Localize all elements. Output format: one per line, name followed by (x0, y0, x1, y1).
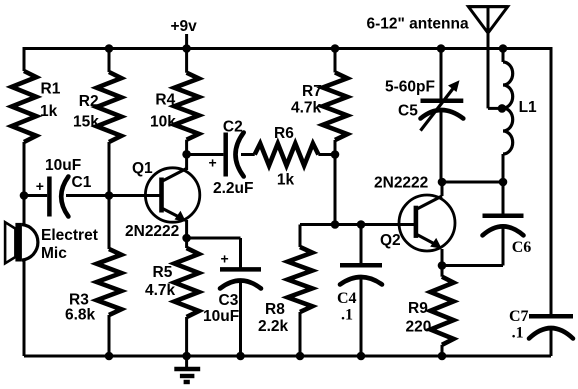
node R2 top rail (105, 44, 114, 53)
resistor R5 (174, 248, 199, 317)
wire rail to L1 (502, 49, 505, 63)
wire C1 to base node (66, 194, 109, 197)
wire R2 to base node (108, 142, 111, 196)
svg-text:L1: L1 (519, 99, 537, 116)
wire rail to R4 (185, 49, 188, 73)
svg-text:R4: R4 (155, 92, 175, 109)
wire Q1 emitter down (185, 220, 188, 238)
resistor R9 (430, 277, 453, 345)
wire L1 to tank bottom (502, 154, 505, 182)
svg-text:10uF: 10uF (45, 157, 81, 174)
node C4 top (357, 220, 366, 229)
svg-text:C1: C1 (72, 174, 92, 191)
svg-text:2N2222: 2N2222 (125, 223, 179, 240)
svg-text:6.8k: 6.8k (65, 307, 96, 324)
capacitor C5 5-60pF (variable) (421, 80, 464, 130)
wire bottom ground rail (24, 355, 551, 358)
svg-text:+: + (221, 251, 229, 267)
node Q2 collector (438, 178, 447, 187)
capacitor C4 (340, 263, 382, 268)
node L1 antenna tap (498, 104, 507, 113)
wire left rail top (23, 47, 26, 71)
microphone Electret Mic (5, 222, 38, 263)
svg-text:R5: R5 (153, 264, 173, 281)
svg-text:+: + (36, 178, 44, 194)
capacitor C6 (483, 213, 524, 218)
node C4 ground (357, 352, 366, 361)
wire C6 to emitter node (502, 228, 505, 266)
node Q1 emitter (182, 234, 191, 243)
svg-text:10uF: 10uF (203, 308, 239, 325)
svg-text:+: + (209, 155, 217, 171)
resistor R8 (288, 247, 313, 312)
wire collector node to Q1 (185, 154, 188, 170)
svg-text:+9v: +9v (171, 18, 198, 35)
svg-text:R8: R8 (265, 301, 285, 318)
transistor Q1 2N2222 (145, 168, 199, 222)
node C3 ground (236, 352, 245, 361)
wire +9v tick (185, 34, 188, 49)
svg-text:1k: 1k (277, 172, 295, 189)
node C5 top rail (437, 44, 446, 53)
wire rail to C5 (440, 49, 443, 101)
wire R8 to ground rail (299, 312, 302, 356)
resistor R2 (97, 72, 122, 142)
svg-text:6-12" antenna: 6-12" antenna (367, 16, 469, 33)
node Q2 emitter (438, 261, 447, 270)
svg-text:Q1: Q1 (132, 160, 153, 177)
svg-text:15k: 15k (73, 114, 99, 131)
node mic/C1/R1 junction (20, 191, 29, 200)
wire mic node to C1 (24, 194, 47, 197)
resistor R7 (323, 72, 348, 140)
wire Q2 collector up (441, 182, 444, 196)
wire Q2 emitter down (441, 249, 444, 266)
wire C5 to collector node (440, 112, 443, 182)
node R9 ground (438, 352, 447, 361)
node R8 ground (296, 352, 305, 361)
wire rail to R7 (334, 49, 337, 73)
node R7 top rail (331, 44, 340, 53)
inductor L1 (503, 62, 513, 154)
node L1 top rail (499, 44, 508, 53)
node Q1 collector (182, 150, 191, 159)
wire C2 to R6 (241, 153, 255, 156)
svg-text:10k: 10k (150, 114, 176, 131)
transistor Q2 2N2222 (399, 195, 455, 251)
wire emitter node to R9 (441, 266, 444, 277)
svg-text:Q2: Q2 (380, 232, 401, 249)
node R6/R7 junction (331, 150, 340, 159)
svg-text:R2: R2 (79, 93, 99, 110)
svg-text:1k: 1k (40, 103, 58, 120)
svg-text:R9: R9 (408, 300, 428, 317)
wire collector node to tank (442, 181, 503, 184)
svg-text:R6: R6 (274, 125, 294, 142)
wire top supply rail (24, 47, 551, 50)
wire base node to Q1 base (109, 194, 162, 197)
svg-text:.1: .1 (341, 307, 353, 324)
wire rail to R2 (108, 49, 111, 73)
wire R1 to mic node (23, 142, 26, 225)
node R3 ground (105, 352, 114, 361)
wire R6 to R7 node (318, 153, 335, 156)
capacitor C1 (47, 177, 52, 217)
capacitor C2 (223, 133, 228, 177)
svg-text:R7: R7 (302, 83, 322, 100)
svg-text:220: 220 (406, 319, 432, 336)
svg-text:C6: C6 (512, 239, 532, 256)
node R5 ground (182, 352, 191, 361)
svg-text:4.7k: 4.7k (145, 282, 176, 299)
wire R4 to collector node (185, 140, 188, 155)
resistor R3 (97, 249, 122, 315)
wire R5 to ground rail (185, 317, 188, 356)
svg-text:4.7k: 4.7k (291, 100, 322, 117)
svg-text:.1: .1 (512, 325, 524, 342)
svg-text:C7: C7 (509, 308, 529, 325)
wire R9 to ground rail (441, 345, 444, 356)
wire C7 to ground rail (550, 330, 553, 356)
svg-text:5-60pF: 5-60pF (385, 79, 435, 96)
svg-text:2.2uF: 2.2uF (213, 180, 253, 197)
svg-text:2.2k: 2.2k (258, 318, 289, 335)
wire Q2 base line (300, 223, 416, 226)
svg-text:Mic: Mic (41, 245, 67, 262)
wire emitter to C3 (187, 237, 241, 240)
antenna (6-12 inch) (468, 7, 507, 109)
svg-text:2N2222: 2N2222 (374, 175, 428, 192)
svg-text:C2: C2 (223, 119, 243, 136)
wire tank to C6 (502, 182, 505, 216)
wire node to C4 (360, 225, 363, 266)
wire collector to C2 (187, 153, 224, 156)
ground (174, 356, 200, 382)
svg-text:R1: R1 (41, 80, 61, 97)
resistor R6 (255, 144, 319, 166)
wire base node to R3 (108, 196, 111, 250)
wire right rail (550, 47, 553, 316)
wire C3 to ground rail (239, 282, 242, 356)
svg-text:Electret: Electret (41, 227, 98, 244)
capacitor C7 (529, 314, 573, 319)
resistor R1 (12, 71, 37, 142)
node base divider junction (105, 191, 114, 200)
node R4 top rail (182, 44, 191, 53)
wire R7 node down to Q2 base line (334, 155, 337, 225)
svg-text:C5: C5 (398, 103, 418, 120)
wire R3 to ground rail (108, 315, 111, 356)
wire emitter to R5 (185, 238, 188, 248)
svg-text:C3: C3 (219, 292, 239, 309)
wire C4 to ground rail (360, 279, 363, 356)
capacitor C3 (220, 267, 261, 272)
wire R7 to R6 node (334, 140, 337, 155)
wire mic to ground rail (23, 260, 26, 356)
wire antenna to L1 tap (488, 107, 503, 110)
node Q2 base line left (331, 220, 340, 229)
resistor R4 (174, 73, 199, 140)
svg-text:C4: C4 (337, 290, 357, 307)
wire corner to R8 (299, 225, 302, 248)
node tank bottom (499, 178, 508, 187)
